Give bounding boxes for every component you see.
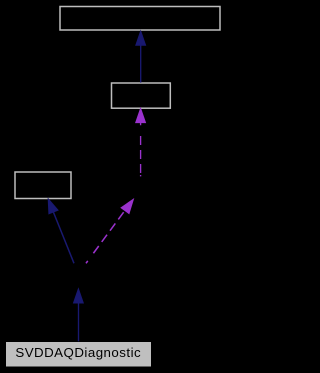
node box SVDDAQDiagnostic [6,342,152,368]
node box left [15,172,71,199]
wire inheritance arrow (solid blue, diagonal to left box) [48,199,74,263]
wire usage arrow (dashed purple, diagonal) [86,199,133,263]
svg-text:SVDDAQDiagnostic: SVDDAQDiagnostic [15,345,141,360]
node box middle [112,83,171,108]
wire inheritance arrow SVDDAQDiagnostic->up (solid blue, vertical) [74,289,84,342]
node box top (base class) [60,7,220,31]
wire usage arrow (dashed purple, vertical to middle box) [136,108,146,176]
wire inheritance arrow middle->top (solid blue) [136,31,146,83]
